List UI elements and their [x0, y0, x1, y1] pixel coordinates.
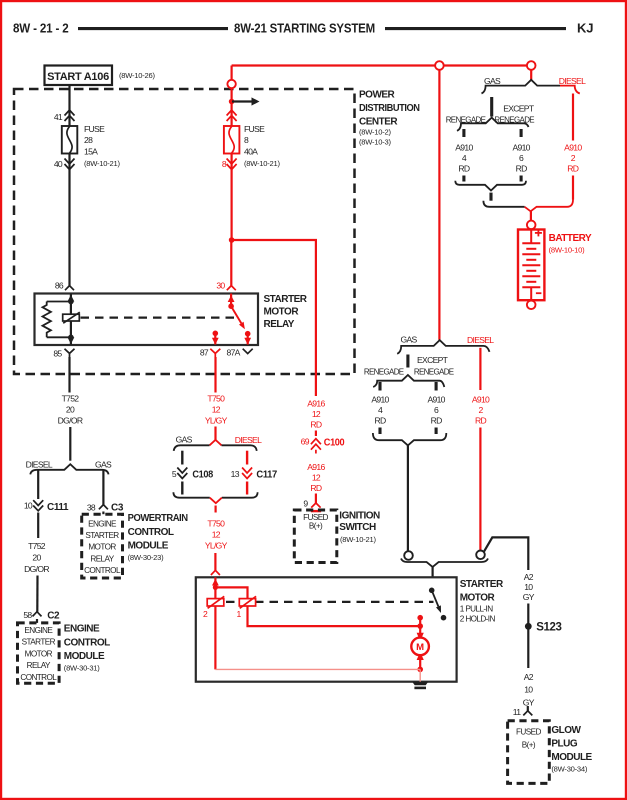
starter pin chevron: [211, 570, 220, 575]
wire 87 to box edge: [214, 333, 216, 344]
svg-text:(8W-10-21): (8W-10-21): [84, 159, 120, 168]
A916 branch wire horizontal then down: [232, 240, 316, 396]
svg-text:30: 30: [216, 281, 225, 291]
brace under circles: [401, 559, 488, 568]
svg-text:58: 58: [23, 610, 32, 620]
svg-text:S123: S123: [536, 622, 561, 634]
A910-6 lower stub: [520, 176, 523, 182]
connector pin 40 chevrons: [65, 159, 75, 170]
svg-text:CONTROL: CONTROL: [64, 637, 110, 648]
node circle at x439: [435, 61, 444, 70]
diesel branch wire upper: [37, 470, 39, 499]
junction dot at arrow branch: [229, 99, 235, 105]
svg-text:PLUG: PLUG: [551, 738, 578, 749]
battery merge brace black half: [483, 201, 524, 207]
motor feed junction dot: [417, 623, 423, 629]
svg-text:(8W-10-21): (8W-10-21): [244, 159, 280, 168]
gas branch wire lower: [181, 482, 183, 495]
svg-text:YL/GY: YL/GY: [205, 541, 228, 551]
svg-text:IGNITION: IGNITION: [339, 511, 380, 522]
battery bottom terminal circle: [527, 301, 536, 310]
fuse 28 element curve: [67, 127, 72, 154]
junction dot to A916 branch: [229, 237, 235, 243]
relay coil vertical wire: [70, 294, 72, 346]
svg-text:POWERTRAIN: POWERTRAIN: [128, 513, 188, 524]
entry arrowhead pin 86: [68, 295, 75, 302]
lower renegade stub: [378, 382, 381, 391]
svg-text:12: 12: [312, 409, 321, 419]
svg-text:DISTRIBUTION: DISTRIBUTION: [359, 103, 420, 114]
svg-text:40: 40: [54, 159, 63, 169]
svg-text:C100: C100: [324, 438, 345, 449]
wire into battery: [530, 211, 532, 221]
node circle on fuse 8 wire: [227, 80, 235, 88]
svg-text:RENEGADE: RENEGADE: [414, 367, 454, 377]
LOWER RIGHT: [401, 537, 593, 783]
renegade branch stub: [462, 129, 465, 137]
thin hold-in return wire: [215, 668, 420, 670]
svg-text:GAS: GAS: [484, 76, 501, 86]
lower diesel branch red wire upper: [479, 348, 481, 390]
svg-text:10: 10: [524, 582, 533, 592]
pin 87A chevron: [243, 349, 253, 354]
red feed wire corner from top rail to fuse 8: [231, 66, 233, 127]
diesel branch wire to C2: [36, 576, 38, 612]
svg-text:10: 10: [24, 501, 33, 511]
svg-text:8W - 21 - 2: 8W - 21 - 2: [13, 21, 69, 36]
svg-text:RENEGADE: RENEGADE: [364, 367, 404, 377]
svg-text:87A: 87A: [227, 348, 241, 358]
starter motor box: [196, 577, 457, 681]
svg-text:CENTER: CENTER: [359, 117, 398, 128]
ignition switch dashed box: [294, 510, 337, 563]
svg-text:CONTROL: CONTROL: [20, 673, 57, 682]
svg-text:C2: C2: [47, 610, 60, 621]
svg-text:A910: A910: [512, 143, 530, 153]
merged T750 wire to starter: [214, 553, 216, 570]
svg-text:85: 85: [53, 349, 62, 359]
coil bottom junction dot: [68, 335, 74, 341]
svg-text:(8W-10-2): (8W-10-2): [359, 128, 392, 137]
svg-text:MOTOR: MOTOR: [88, 543, 116, 552]
svg-text:(8W-30-31): (8W-30-31): [64, 664, 100, 673]
wire from brace into starter box: [432, 567, 434, 591]
svg-text:T752: T752: [28, 541, 46, 551]
contact 87 dot: [213, 331, 219, 337]
thin wire to ground: [419, 669, 421, 681]
gas branch wire: [102, 470, 104, 505]
splice S123 dot: [525, 623, 532, 630]
pull-in coil 1 symbol: [239, 599, 255, 606]
svg-text:EXCEPT: EXCEPT: [503, 104, 535, 114]
gas branch stub: [490, 97, 493, 117]
svg-text:RD: RD: [431, 415, 443, 425]
svg-text:EXCEPT: EXCEPT: [417, 355, 449, 365]
MIDDLE COLUMN: [172, 357, 380, 575]
svg-text:RD: RD: [374, 415, 386, 425]
START A106 box: [45, 66, 113, 86]
pin 85 chevron: [65, 349, 75, 357]
svg-text:12: 12: [212, 405, 221, 415]
svg-text:FUSE: FUSE: [84, 124, 105, 134]
svg-text:MOTOR: MOTOR: [264, 306, 300, 317]
battery merge brace red half: [525, 200, 573, 212]
pin 11 chevron: [523, 711, 532, 716]
merged gas stub: [489, 193, 492, 201]
svg-text:T752: T752: [62, 394, 80, 404]
stub into PCM: [102, 512, 104, 515]
svg-text:8W-21 STARTING SYSTEM: 8W-21 STARTING SYSTEM: [234, 21, 375, 36]
svg-text:A910: A910: [472, 394, 490, 404]
entry arrowhead pin 30: [228, 295, 235, 302]
stub into ECM: [36, 619, 38, 623]
svg-text:DIESEL: DIESEL: [235, 435, 262, 445]
lower diesel branch red wire to circle: [479, 428, 481, 551]
svg-text:(8W-30-34): (8W-30-34): [551, 764, 587, 773]
resistor zigzag: [43, 302, 51, 338]
svg-text:BATTERY: BATTERY: [549, 233, 592, 244]
svg-text:FUSED: FUSED: [303, 513, 328, 522]
renegade split brace: [457, 118, 529, 131]
svg-text:RELAY: RELAY: [27, 661, 51, 670]
branch wire to coil 1: [215, 587, 247, 598]
ground: [412, 682, 428, 686]
svg-text:(8W-10-26): (8W-10-26): [119, 71, 155, 80]
svg-text:12: 12: [312, 473, 321, 483]
svg-text:MODULE: MODULE: [64, 651, 105, 662]
gas feed circle terminal: [404, 551, 413, 560]
lower renegade split brace: [373, 375, 444, 387]
svg-text:M: M: [416, 642, 424, 653]
svg-text:MOTOR: MOTOR: [460, 592, 496, 603]
entry arrowhead: [212, 579, 219, 586]
svg-text:10: 10: [524, 685, 533, 695]
connector chevrons above fuse 8: [227, 110, 237, 121]
lower except renegade stub: [435, 382, 438, 391]
svg-text:C111: C111: [47, 502, 69, 513]
svg-text:DIESEL: DIESEL: [559, 76, 586, 86]
svg-text:RD: RD: [310, 483, 322, 493]
merged gas wire down to circle: [407, 445, 409, 551]
wire T752 lower segment: [69, 427, 71, 461]
svg-text:2 HOLD-IN: 2 HOLD-IN: [460, 614, 496, 623]
merged T750 stub: [215, 506, 217, 513]
svg-text:DG/OR: DG/OR: [24, 564, 49, 574]
except renegade branch stub: [520, 129, 523, 137]
svg-text:20: 20: [32, 553, 41, 563]
svg-text:RD: RD: [516, 163, 528, 173]
A916 stub: [315, 431, 317, 437]
svg-text:STARTER: STARTER: [22, 638, 56, 647]
diesel feed circle terminal: [476, 551, 485, 560]
svg-text:A916: A916: [307, 462, 325, 472]
mid split brace: [174, 445, 257, 451]
coil 2 wire down: [214, 606, 216, 669]
battery top terminal circle: [527, 221, 536, 230]
motor terminal dot: [417, 615, 423, 621]
mid merge red vee: [210, 498, 222, 504]
pin 87 chevron: [210, 349, 220, 357]
svg-text:SWITCH: SWITCH: [339, 522, 376, 533]
header right rule: [385, 27, 566, 30]
junction dot to pull-in branch: [213, 585, 218, 590]
svg-text:POWER: POWER: [359, 90, 396, 101]
T750 entry wire: [214, 577, 216, 598]
contact common dot: [228, 303, 234, 309]
wire from rail to battery gas/diesel split: [530, 70, 532, 81]
svg-text:RD: RD: [458, 163, 470, 173]
exit arrowhead pin 85: [68, 337, 75, 344]
svg-text:40A: 40A: [244, 147, 258, 157]
motor bottom brush: [417, 655, 424, 660]
wire A2 middle segment: [527, 604, 529, 669]
hold-in coil 2 symbol: [207, 599, 224, 606]
svg-text:C108: C108: [192, 470, 213, 481]
svg-text:STARTER: STARTER: [264, 294, 308, 305]
connector C100 chevrons: [311, 439, 321, 454]
svg-text:15A: 15A: [84, 147, 98, 157]
header left rule: [78, 27, 228, 30]
fuse 8 element curve: [229, 127, 234, 154]
diesel branch red wire: [572, 94, 574, 141]
svg-text:A910: A910: [455, 143, 473, 153]
power distribution center dashed box: [14, 89, 355, 374]
svg-text:GY: GY: [523, 592, 535, 602]
fuse 8 box: [224, 126, 240, 154]
pin 9 chevron: [311, 503, 320, 508]
lower merge brace: [373, 433, 446, 445]
svg-text:69: 69: [301, 437, 310, 447]
switch pivot dot: [429, 588, 435, 594]
resistor branch bottom lead: [47, 336, 71, 338]
svg-text:A2: A2: [524, 572, 534, 582]
svg-text:RELAY: RELAY: [264, 319, 295, 330]
stub up to switch contact: [419, 618, 421, 626]
TOP RIGHT DISTRIBUTION + BATTERY: [232, 61, 592, 551]
connector C108 chevrons: [177, 468, 187, 479]
HEADER: [13, 21, 593, 36]
svg-text:GLOW: GLOW: [551, 725, 581, 736]
svg-text:20: 20: [66, 405, 75, 415]
svg-text:FUSED: FUSED: [516, 728, 541, 737]
pin 38 chevron: [99, 505, 108, 510]
svg-text:KJ: KJ: [577, 21, 593, 36]
svg-text:YL/GY: YL/GY: [205, 416, 228, 426]
gas branch wire upper: [181, 451, 183, 465]
svg-text:DG/OR: DG/OR: [58, 416, 83, 426]
coil to contact dashed link: [81, 317, 237, 319]
contact 87A dot: [245, 331, 251, 337]
mechanical dashed link: [226, 601, 434, 603]
wire motor to ground: [419, 660, 421, 669]
coil 1 wire down and to motor: [248, 606, 421, 626]
svg-text:ENGINE: ENGINE: [64, 624, 100, 635]
RELAY: [35, 281, 308, 359]
lower gas/diesel split brace: [397, 340, 489, 354]
diesel branch wire upper: [246, 451, 248, 465]
svg-text:A910: A910: [371, 394, 389, 404]
pin 58 chevron: [33, 612, 42, 617]
wire from START A106 down: [68, 85, 70, 126]
svg-text:41: 41: [54, 112, 63, 122]
STARTER MOTOR: [196, 577, 504, 689]
svg-text:(8W-10-10): (8W-10-10): [549, 245, 585, 254]
svg-text:A910: A910: [564, 143, 582, 153]
mid split red peak: [210, 440, 222, 446]
A2 wire from diesel circle: [484, 537, 528, 570]
svg-text:B(+): B(+): [522, 740, 536, 749]
pin 86 chevron: [65, 286, 74, 291]
wire from rail down to lower split: [438, 70, 440, 340]
svg-text:1 PULL-IN: 1 PULL-IN: [460, 604, 494, 613]
svg-text:B(+): B(+): [309, 522, 323, 531]
motor top brush: [417, 633, 424, 638]
resistor branch top lead: [47, 301, 71, 303]
switch blade arrow: [432, 590, 439, 606]
svg-text:GAS: GAS: [176, 434, 193, 444]
connector C111 chevrons: [33, 500, 43, 511]
svg-text:STARTER: STARTER: [85, 531, 119, 540]
connector pin 41 chevrons: [65, 110, 75, 121]
renegade merge brace: [455, 181, 526, 191]
svg-text:38: 38: [87, 503, 96, 513]
ground junction dot: [417, 667, 423, 673]
svg-text:CONTROL: CONTROL: [84, 566, 121, 575]
LEFT LOWER COLUMN: [18, 357, 188, 683]
diesel branch wire lower: [246, 482, 248, 495]
svg-text:A910: A910: [427, 394, 445, 404]
node circle at x531: [527, 61, 536, 70]
top red feed rail: [232, 64, 532, 66]
svg-text:C117: C117: [256, 470, 277, 481]
svg-text:STARTER: STARTER: [460, 579, 504, 590]
switch contact dot: [441, 615, 447, 621]
contact arm to 87A: [231, 306, 241, 323]
A916 wire to ignition switch: [315, 494, 317, 504]
PDC AREA: [14, 66, 420, 397]
lower gas branch stub: [406, 355, 409, 368]
svg-text:T750: T750: [207, 394, 225, 404]
branch arrow to right: [232, 100, 252, 102]
wire fuse 8 down to junction and relay pin 30: [231, 154, 233, 241]
svg-text:T750: T750: [207, 519, 225, 529]
svg-text:(8W-30-23): (8W-30-23): [128, 553, 164, 562]
svg-text:28: 28: [84, 135, 93, 145]
ignition terminal bar: [311, 510, 321, 512]
wire into motor: [419, 626, 421, 633]
svg-text:RELAY: RELAY: [90, 554, 114, 563]
mid merge brace: [173, 492, 257, 497]
svg-text:(8W-10-3): (8W-10-3): [359, 138, 392, 147]
A910-2 lower stub: [572, 176, 574, 200]
fuse 28 box: [62, 126, 78, 154]
battery: [518, 229, 544, 300]
svg-text:FUSE: FUSE: [244, 124, 265, 134]
starter motor relay box: [35, 294, 259, 346]
svg-text:RD: RD: [567, 163, 579, 173]
svg-text:RD: RD: [310, 419, 322, 429]
left diesel/gas split brace: [30, 464, 108, 474]
pin 30 chevron: [227, 286, 236, 291]
glow plug module dashed box: [508, 721, 550, 784]
svg-text:12: 12: [212, 530, 221, 540]
motor M: [411, 638, 429, 656]
svg-text:13: 13: [231, 469, 240, 479]
engine control module dashed box: [18, 623, 60, 683]
svg-text:DIESEL: DIESEL: [467, 335, 494, 345]
coil top junction dot: [68, 299, 74, 305]
svg-text:C3: C3: [111, 503, 124, 514]
connector C117 chevrons: [242, 468, 252, 479]
svg-text:87: 87: [200, 348, 209, 358]
svg-text:86: 86: [55, 281, 64, 291]
svg-text:MODULE: MODULE: [551, 752, 592, 763]
svg-text:ENGINE: ENGINE: [88, 519, 117, 528]
wire from relay pin 85 down: [68, 357, 70, 393]
svg-text:MOTOR: MOTOR: [25, 649, 53, 658]
battery gas/diesel split brace: [482, 80, 561, 94]
svg-text:START A106: START A106: [47, 71, 109, 83]
svg-text:RD: RD: [475, 415, 487, 425]
svg-text:GAS: GAS: [401, 335, 418, 345]
powertrain control module dashed box: [82, 514, 123, 578]
svg-text:GY: GY: [523, 698, 535, 708]
diesel branch wire middle: [37, 513, 39, 539]
lower renegade lower stubs: [378, 428, 381, 435]
A910-4 lower stub: [462, 176, 465, 182]
relay contact wire from pin 30: [230, 294, 232, 307]
wire 87A to box edge: [247, 334, 249, 345]
wire T750 stub to split: [214, 427, 216, 441]
wire fuse 28 to relay pin 86: [68, 154, 70, 286]
svg-text:A2: A2: [524, 672, 534, 682]
svg-text:CONTROL: CONTROL: [128, 527, 174, 538]
svg-text:GAS: GAS: [95, 459, 112, 469]
relay coil symbol: [63, 314, 80, 321]
svg-text:(8W-10-21): (8W-10-21): [340, 535, 376, 544]
svg-text:DIESEL: DIESEL: [26, 459, 53, 469]
svg-text:ENGINE: ENGINE: [24, 626, 53, 635]
svg-text:A916: A916: [307, 398, 325, 408]
wire from relay pin 87 down: [214, 357, 216, 393]
connector chevrons below fuse 8: [227, 159, 237, 170]
svg-text:MODULE: MODULE: [128, 541, 169, 552]
svg-text:11: 11: [513, 707, 521, 717]
